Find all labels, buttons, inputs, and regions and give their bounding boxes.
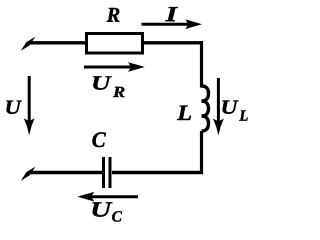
wire top-right (resistor to corner): [144, 41, 204, 44]
capacitor C: [104, 157, 111, 188]
label UC: [92, 202, 122, 221]
voltage arrow UR: [84, 62, 145, 72]
voltage arrow UL: [213, 78, 224, 136]
inductor L: [202, 86, 209, 131]
label UR: [93, 76, 124, 97]
wire bottom-left (capacitor to terminal): [28, 171, 102, 174]
voltage arrow U: [24, 76, 35, 135]
label UL: [222, 101, 247, 121]
terminal top-left input: [21, 37, 36, 51]
label L: [177, 106, 191, 120]
terminal bottom-left input: [21, 167, 36, 181]
wire bottom-right (corner to capacitor): [112, 171, 203, 174]
voltage arrow UC: [77, 192, 138, 202]
current arrow I: [142, 19, 203, 29]
wire right vertical upper: [200, 41, 203, 88]
label R: [107, 8, 120, 22]
wire right vertical lower: [200, 131, 203, 174]
wire top-left (terminal to resistor): [28, 41, 86, 44]
label C: [92, 132, 105, 147]
label I: [165, 7, 178, 21]
resistor R: [87, 34, 143, 54]
label U source: [6, 101, 22, 114]
